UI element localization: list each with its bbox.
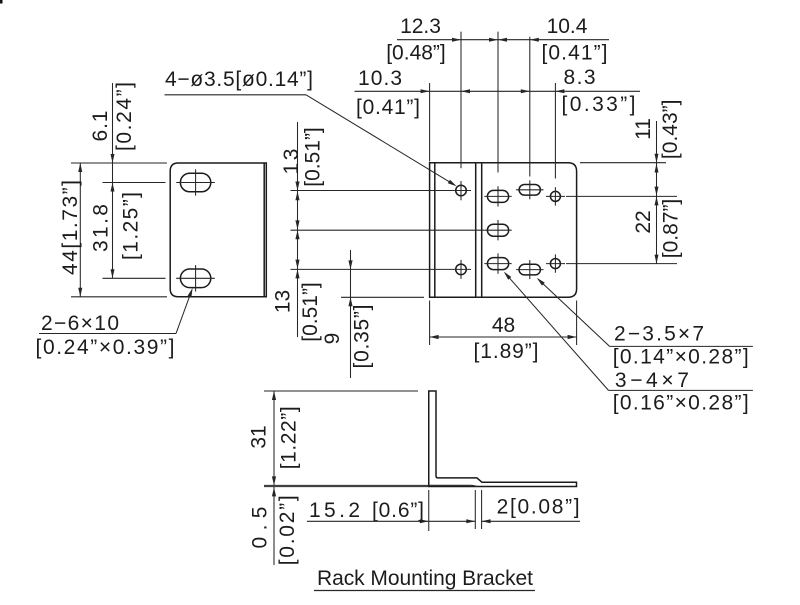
dimension text [0.24"] bbox=[113, 82, 136, 151]
extension line 15.2 left bbox=[428, 490, 430, 531]
svg-text:[0.02”]: [0.02”] bbox=[276, 495, 299, 565]
hole col1 bottom bbox=[456, 264, 467, 275]
slot col2 top bbox=[487, 190, 508, 202]
svg-text:[0.24”×0.39”]: [0.24”×0.39”] bbox=[36, 336, 175, 359]
dimension text 13 bottom bbox=[272, 290, 295, 313]
dimension text 48 bbox=[492, 314, 515, 337]
dimension line 11 22 bbox=[655, 121, 659, 264]
slot col2 bottom bbox=[487, 258, 508, 270]
hole col1 top bbox=[456, 185, 467, 196]
front view plate outline bbox=[430, 163, 577, 298]
dimension text [0.33"] bbox=[562, 93, 636, 116]
dimension text [0.48"] bbox=[386, 42, 446, 65]
svg-text:0.5: 0.5 bbox=[248, 507, 271, 549]
dimension line 13 13 bbox=[295, 122, 299, 337]
extension line right row top bbox=[566, 195, 677, 197]
svg-text:4−ø3.5[ø0.14”]: 4−ø3.5[ø0.14”] bbox=[165, 68, 313, 91]
dimension text [1.22"] bbox=[277, 406, 300, 469]
left view bend line inner right edge bbox=[263, 163, 265, 297]
svg-text:Rack Mounting Bracket: Rack Mounting Bracket bbox=[317, 567, 533, 590]
extension line front bottom left bbox=[341, 296, 424, 298]
dimension text 10.4 bbox=[547, 15, 588, 38]
extension line side bottom thick bbox=[264, 485, 429, 486]
svg-text:[0.41”]: [0.41”] bbox=[356, 96, 420, 119]
dimension text 2[0.08"] bbox=[497, 496, 580, 519]
extension line col1 up bbox=[460, 32, 462, 169]
dimension text 11 bbox=[632, 118, 655, 140]
svg-text:[0.35”]: [0.35”] bbox=[351, 305, 374, 369]
svg-text:22: 22 bbox=[632, 210, 655, 233]
dimension line 31 bbox=[272, 391, 276, 485]
label 2-6x10 text bbox=[41, 312, 119, 335]
extension line left view top edge bbox=[71, 162, 167, 164]
extension line col3 up bbox=[529, 37, 531, 177]
dimension text [0.02"] bbox=[276, 495, 299, 565]
svg-text:[0.51”]: [0.51”] bbox=[299, 282, 322, 342]
dimension line 9 bbox=[348, 250, 352, 378]
label 4-dia3.5 underline bbox=[165, 94, 307, 96]
svg-text:31.8: 31.8 bbox=[90, 204, 113, 252]
front view bend line 1 bbox=[475, 163, 477, 298]
dimension text 8.3 bbox=[564, 66, 596, 89]
hole col4 top centerlines bbox=[546, 187, 565, 205]
dimension text 15.2 bbox=[309, 499, 360, 522]
svg-text:[0.51”]: [0.51”] bbox=[302, 127, 325, 187]
svg-text:[0.6”]: [0.6”] bbox=[372, 499, 424, 522]
corner speck bbox=[0, 0, 3, 4]
slot col3 top centerlines bbox=[516, 180, 543, 199]
svg-text:9: 9 bbox=[321, 333, 344, 345]
svg-text:13: 13 bbox=[272, 290, 295, 313]
label 2-3.5x7 bracket text bbox=[613, 346, 749, 369]
dimension text 10.3 bbox=[358, 67, 402, 90]
extension line row 13 top bbox=[291, 190, 452, 192]
dimension text [0.51"] top bbox=[302, 127, 325, 187]
extension line row 13 bottom bbox=[291, 268, 452, 270]
extension line left view slot bottom center bbox=[103, 277, 166, 279]
dimension text 22 bbox=[632, 210, 655, 233]
svg-text:3−4×7: 3−4×7 bbox=[615, 369, 689, 392]
label 2-3.5x7 leader bbox=[537, 278, 610, 347]
left view slot top centerlines bbox=[176, 169, 215, 195]
dimension row1 line bbox=[397, 38, 609, 42]
left view slot bottom bbox=[180, 269, 210, 288]
svg-text:48: 48 bbox=[492, 314, 515, 337]
dimension text [0.51"] bottom bbox=[299, 282, 322, 342]
dimension text [0.41"] left bbox=[356, 96, 420, 119]
extension line 48 right bbox=[576, 301, 578, 346]
dimension line 44 bbox=[78, 163, 82, 297]
svg-text:44[1.73”]: 44[1.73”] bbox=[59, 180, 82, 275]
label 3-4x7 underline bbox=[609, 389, 753, 391]
dimension line 6.1 and 31.8 bbox=[111, 83, 115, 278]
label 3-4x7 text bbox=[615, 369, 689, 392]
svg-text:2[0.08”]: 2[0.08”] bbox=[497, 496, 580, 519]
svg-text:[1.22”]: [1.22”] bbox=[277, 406, 300, 469]
left view plate outline bbox=[170, 163, 266, 297]
label 2-6x10 leader bbox=[176, 288, 193, 334]
dimension text 31 bbox=[247, 425, 270, 448]
left view slot bottom centerlines bbox=[176, 265, 215, 291]
extension line front left edge up bbox=[429, 83, 431, 162]
svg-text:2−6×10: 2−6×10 bbox=[41, 312, 119, 335]
dimension row2 line bbox=[355, 89, 641, 93]
dimension text [0.41"] top bbox=[542, 42, 608, 65]
svg-text:[1.89”]: [1.89”] bbox=[474, 340, 539, 363]
side view L-section outline bbox=[429, 391, 577, 487]
label 3-4x7 bracket text bbox=[613, 392, 749, 415]
dimension text 31.8 bbox=[90, 204, 113, 252]
svg-text:[0.24”]: [0.24”] bbox=[113, 82, 136, 151]
slot col2 top centerlines bbox=[484, 186, 511, 206]
svg-text:[1.25”]: [1.25”] bbox=[120, 192, 143, 260]
svg-text:8.3: 8.3 bbox=[564, 66, 596, 89]
extension line row 13 middle bbox=[291, 229, 485, 231]
svg-text:31: 31 bbox=[247, 425, 270, 448]
slot col3 bottom bbox=[519, 264, 540, 275]
front view bend line 2 bbox=[481, 163, 483, 298]
dimension line 0.5 bbox=[272, 487, 276, 565]
dimension text 13 top bbox=[280, 149, 303, 175]
label 2-6x10 bracket text bbox=[36, 336, 175, 359]
dimension text [1.25"] bbox=[120, 192, 143, 260]
svg-text:15.2: 15.2 bbox=[309, 499, 360, 522]
dimension text [0.43"] bbox=[659, 100, 682, 160]
label 4-dia3.5 text bbox=[165, 68, 313, 91]
svg-text:2−3.5×7: 2−3.5×7 bbox=[614, 323, 704, 346]
extension line left view slot top center bbox=[103, 182, 166, 184]
svg-text:6.1: 6.1 bbox=[89, 111, 112, 142]
label 2-6x10 underline bbox=[39, 333, 176, 335]
title underline bbox=[314, 590, 535, 592]
left view slot top bbox=[180, 173, 210, 192]
extension line right row bottom bbox=[566, 263, 677, 265]
svg-text:13: 13 bbox=[280, 149, 303, 175]
svg-text:10.3: 10.3 bbox=[358, 67, 402, 90]
slot col2 middle centerlines bbox=[484, 220, 511, 240]
front view left inner line bbox=[434, 163, 436, 298]
svg-text:11: 11 bbox=[632, 118, 655, 140]
svg-text:[0.33”]: [0.33”] bbox=[562, 93, 636, 116]
label 2-3.5x7 text bbox=[614, 323, 704, 346]
svg-text:[0.16”×0.28”]: [0.16”×0.28”] bbox=[613, 392, 749, 415]
dimension text 6.1 bbox=[89, 111, 112, 142]
svg-text:[0.14”×0.28”]: [0.14”×0.28”] bbox=[613, 346, 749, 369]
slot col2 middle bbox=[487, 224, 508, 236]
dimension text 44[1.73"] bbox=[59, 180, 82, 275]
hole col1 bottom centerlines bbox=[451, 260, 471, 279]
slot col3 top bbox=[519, 185, 540, 196]
dimension line 15.2 bbox=[307, 519, 475, 523]
hole col1 top centerlines bbox=[451, 181, 471, 200]
svg-text:12.3: 12.3 bbox=[400, 15, 441, 38]
svg-text:[0.41”]: [0.41”] bbox=[542, 42, 608, 65]
svg-text:10.4: 10.4 bbox=[547, 15, 588, 38]
hole col4 bottom bbox=[550, 259, 560, 269]
svg-text:[0.43”]: [0.43”] bbox=[659, 100, 682, 160]
label 4-dia3.5 leader bbox=[306, 95, 457, 186]
extension line col2 up bbox=[497, 32, 499, 173]
hole col4 top bbox=[550, 191, 560, 201]
extension line side top bbox=[264, 390, 418, 392]
slot col3 bottom centerlines bbox=[516, 260, 543, 279]
dimension text [1.89"] bbox=[474, 340, 539, 363]
extension line right top edge bbox=[580, 162, 666, 164]
dimension text [0.35"] bbox=[351, 305, 374, 369]
side view inner thickness step line bbox=[429, 485, 478, 486]
extension line 15.2 right bbox=[474, 490, 476, 529]
extension line left view bottom edge bbox=[71, 296, 167, 298]
hole col4 bottom centerlines bbox=[546, 254, 565, 272]
dimension text 12.3 bbox=[400, 15, 441, 38]
dimension line 48 bbox=[430, 335, 577, 339]
extension line 2 right bbox=[481, 490, 483, 529]
svg-text:[0.48”]: [0.48”] bbox=[386, 42, 446, 65]
label 3-4x7 leader bbox=[504, 272, 609, 391]
svg-text:[0.87”]: [0.87”] bbox=[660, 199, 683, 259]
slot col2 bottom centerlines bbox=[484, 253, 511, 273]
extension line 48 left bbox=[429, 301, 431, 346]
title text bbox=[317, 567, 533, 590]
dimension text [0.6"] bbox=[372, 499, 424, 522]
label 2-3.5x7 underline bbox=[610, 345, 753, 347]
dimension line 2 bbox=[482, 519, 580, 523]
dimension text 0.5 bbox=[248, 507, 271, 549]
dimension text [0.87"] bbox=[660, 199, 683, 259]
extension line col4 up bbox=[554, 83, 556, 179]
dimension text 9 bbox=[321, 333, 344, 345]
